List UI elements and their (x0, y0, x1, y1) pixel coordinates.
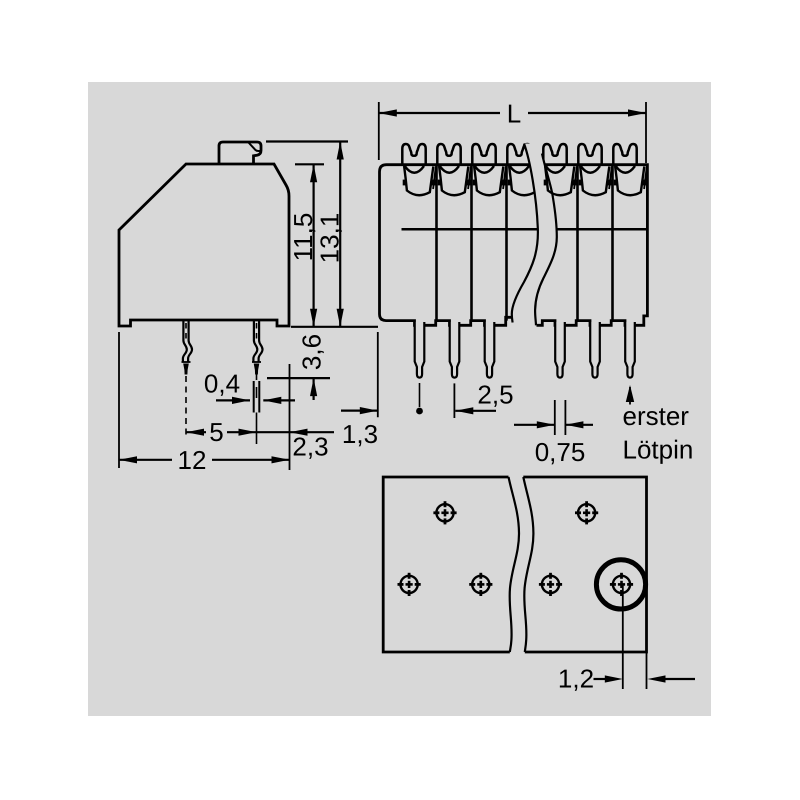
right pin 0,4 cross-section lines (253, 381, 255, 413)
drill hole symbol at 409.1,584.4 (401, 576, 418, 593)
wire funnel at cell x=401.5 (405, 166, 424, 173)
front view solder pin at x=454.5 (450, 322, 460, 378)
side view solder pin at x=186 (183, 321, 187, 362)
first pin marker dot (419, 383, 421, 407)
gray drawing background (88, 82, 711, 716)
dimension 2,5 (pitch) (453, 383, 455, 418)
spring clamp crown at cell x=506.5 (507, 144, 530, 166)
dimension 1,3 (341, 410, 378, 412)
dimension 13,1 (total height) (339, 142, 341, 327)
PCB drilling plan: left plate (383, 477, 510, 652)
dimension 2,3 (290, 429, 308, 436)
spring clamp crown at cell x=436.5 (437, 144, 460, 166)
drill hole symbol at 550.5,584.4 (542, 576, 559, 593)
drill hole symbol at 445,512.8 (436, 504, 453, 521)
svg-text:1,2: 1,2 (558, 664, 594, 694)
dimension 5 (pin spacing) (186, 431, 206, 433)
front view: housing outline right part (537, 165, 648, 326)
svg-text:L: L (507, 99, 521, 129)
pin centre dashed line (left pin) (185, 376, 187, 436)
front view solder pin at x=560.0 (555, 322, 565, 378)
wire funnel at cell x=506.5 (510, 166, 529, 173)
front view solder pin at x=489.5 (485, 322, 495, 378)
dimension 1,2 (622, 585, 624, 689)
dimension 12 (body width) (119, 459, 172, 461)
wire funnel at cell x=542.5 (546, 166, 565, 173)
drill hole symbol at 480.8,584.4 (472, 576, 489, 593)
svg-text:3,6: 3,6 (297, 334, 327, 370)
wire funnel at cell x=471.5 (475, 166, 494, 173)
front view solder pin at x=595.0 (590, 322, 600, 378)
front view: housing outline left part (380, 165, 531, 326)
tear curve left (512, 144, 538, 323)
svg-text:Lötpin: Lötpin (623, 435, 694, 465)
front view: L dimension (379, 112, 500, 114)
front view: chamber divider walls (435, 165, 438, 321)
PCB drilling plan: right plate (523, 477, 646, 652)
latch chamfer line (249, 143, 261, 152)
side view: actuation latch on top (219, 142, 261, 164)
svg-text:2,3: 2,3 (292, 432, 328, 462)
right plate tear edge (523, 477, 533, 652)
extension line: latch top (13,1 ref) (266, 140, 348, 142)
break band (tear) (512, 144, 557, 326)
svg-text:2,5: 2,5 (477, 380, 513, 410)
front view: horizontal feature line (402, 228, 648, 231)
side view solder pin at x=256.5 (253, 321, 257, 362)
dimension 3,6 (pin length) (313, 378, 315, 400)
extension line: pin tip level (267, 377, 330, 379)
tear curve right (535, 154, 557, 326)
spring clamp crown at cell x=471.5 (472, 144, 495, 166)
svg-text:0,4: 0,4 (204, 369, 240, 399)
spring clamp crown at cell x=577.5 (578, 144, 601, 166)
dimension 11,5 (body height) (313, 164, 315, 326)
dimension 0,4 (pin thickness) (216, 399, 250, 401)
side view: terminal block body outline (119, 164, 289, 326)
spring clamp crown at cell x=612.5 (613, 144, 636, 166)
front view solder pin at x=419.5 (415, 322, 425, 378)
drill hole symbol at 621.5,584.4 (613, 576, 630, 593)
extension line: body bottom (291, 326, 378, 328)
front view solder pin at x=630.0 (625, 322, 635, 378)
erster Loetpin arrow (629, 387, 631, 405)
left plate tear edge (509, 477, 520, 652)
dimension 0,75 (pin width) (554, 400, 556, 435)
extension line: body top (11,5 ref) (295, 163, 324, 165)
svg-text:0,75: 0,75 (535, 437, 586, 467)
svg-text:1,3: 1,3 (342, 419, 378, 449)
svg-text:5: 5 (209, 417, 223, 447)
svg-text:13,1: 13,1 (315, 213, 345, 264)
svg-text:11,5: 11,5 (288, 213, 318, 262)
wire funnel at cell x=577.5 (581, 166, 600, 173)
highlighted hole circle (596, 560, 645, 609)
spring clamp crown at cell x=542.5 (543, 144, 566, 166)
spring clamp crown at cell x=401.5 (402, 144, 425, 166)
wire funnel at cell x=612.5 (616, 166, 635, 173)
wire funnel at cell x=436.5 (440, 166, 459, 173)
right pin centre extension line (256, 413, 258, 445)
svg-text:erster: erster (623, 401, 690, 431)
drill hole symbol at 586.6,512.8 (578, 504, 595, 521)
svg-text:12: 12 (178, 445, 207, 475)
